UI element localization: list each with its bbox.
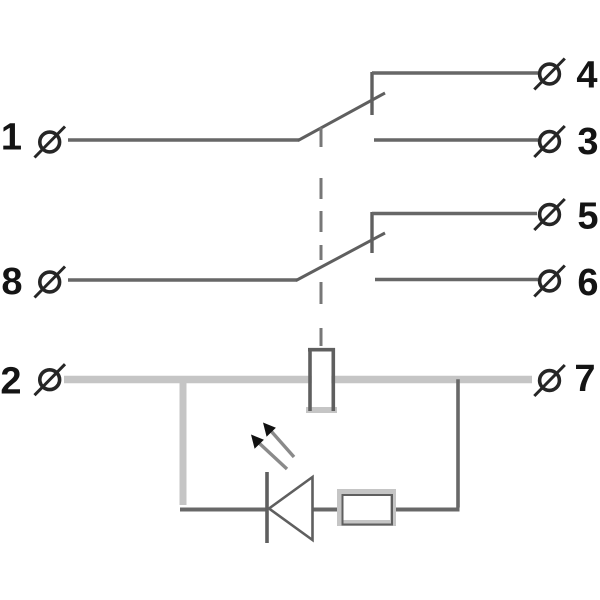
wire pin 5 bbox=[372, 212, 537, 216]
mechanical linkage (dashed) bbox=[320, 128, 323, 347]
terminal symbol pin 8 bbox=[35, 267, 66, 298]
wire right branch to resistor bbox=[393, 508, 460, 512]
coil bottom light bar bbox=[306, 407, 337, 413]
LED triangle bbox=[269, 477, 313, 540]
contact line pole 2 bbox=[370, 212, 373, 253]
LED arrow 2 bbox=[251, 435, 287, 470]
resistor R (light body) bbox=[340, 492, 393, 523]
contact line pole 1 bbox=[370, 72, 373, 115]
wire pin 6 bbox=[375, 278, 538, 282]
svg-text:8: 8 bbox=[1, 261, 22, 303]
svg-text:1: 1 bbox=[1, 117, 22, 159]
svg-text:6: 6 bbox=[577, 262, 598, 304]
wire pin 3 bbox=[374, 138, 538, 142]
wire LED to resistor bbox=[313, 508, 341, 512]
svg-text:4: 4 bbox=[576, 55, 597, 97]
wire pin 8 bbox=[68, 278, 297, 282]
LED arrow 1 bbox=[263, 423, 294, 458]
terminal symbol pin 6 bbox=[534, 266, 565, 297]
svg-text:3: 3 bbox=[577, 121, 598, 163]
terminal symbol pin 3 bbox=[534, 126, 565, 157]
wire pin 1 bbox=[68, 138, 299, 142]
wire pin 4 bbox=[372, 71, 538, 75]
svg-text:5: 5 bbox=[577, 196, 598, 238]
wire right branch from rail bbox=[456, 379, 460, 507]
wire left branch to LED bbox=[180, 380, 187, 506]
wire left branch to LED bbox=[180, 508, 267, 512]
terminal symbol pin 4 bbox=[534, 59, 565, 90]
terminal symbol pin 1 bbox=[35, 127, 66, 158]
svg-text:7: 7 bbox=[574, 358, 595, 400]
svg-text:2: 2 bbox=[0, 361, 21, 403]
terminal symbol pin 2 bbox=[35, 364, 66, 395]
wire pin2 to pin7 (thick common rail) bbox=[64, 376, 532, 384]
resistor R (dark outline) bbox=[343, 495, 393, 525]
terminal symbol pin 5 bbox=[534, 199, 565, 230]
switch lever pole 2 bbox=[296, 233, 385, 281]
terminal symbol pin 7 bbox=[534, 365, 565, 396]
LED cathode bar bbox=[265, 472, 269, 543]
coil K (rectangle, white core over rail) bbox=[312, 351, 332, 406]
switch lever pole 1 bbox=[298, 93, 385, 141]
